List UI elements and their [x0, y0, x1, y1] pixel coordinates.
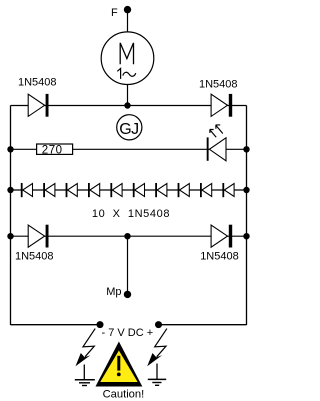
diode D4 (bottom-right) [211, 225, 232, 248]
wire: resistor/LED row [11, 148, 247, 150]
LED D5 [207, 125, 226, 161]
node: center row4 [124, 233, 130, 239]
LED arrow 1 [210, 130, 217, 138]
chain diode 5 (1N5408) [110, 183, 122, 197]
wire: top terminal stem F to motor [127, 10, 129, 32]
motor M glyph [120, 43, 133, 64]
svg-text:1N5408: 1N5408 [200, 250, 239, 262]
chain diode 2 (1N5408) [43, 183, 55, 197]
caution warning triangle [96, 342, 143, 387]
lightning bolt left [76, 329, 96, 367]
node: left bus row3 [7, 187, 13, 193]
wire: motor bottom to top bus [127, 85, 129, 106]
wire: Mp stem [127, 236, 129, 291]
ground right [148, 364, 166, 386]
wire: left bus [10, 106, 12, 326]
chain diode 10 (1N5408) [222, 183, 234, 197]
chain diode 4 (1N5408) [88, 183, 100, 197]
node: right bus row3 [243, 187, 249, 193]
svg-text:1N5408: 1N5408 [15, 250, 54, 262]
label GJ circle [117, 115, 142, 140]
node: left bus row4 [7, 233, 13, 239]
svg-text:- 7 V DC +: - 7 V DC + [102, 327, 154, 339]
terminal F dot [124, 6, 131, 13]
svg-text:GJ: GJ [119, 121, 138, 138]
diode D2 (top-right) [211, 94, 232, 117]
diode D1 (top-left) [28, 94, 48, 117]
svg-text:Caution!: Caution! [103, 388, 145, 400]
svg-text:10 X 1N5408: 10 X 1N5408 [92, 208, 170, 220]
node: right bus row4 [243, 233, 249, 239]
wire: bottom bus right segment [159, 324, 247, 326]
wire: right bus [246, 106, 248, 326]
node: left bus row2 [7, 146, 13, 152]
terminal Mp dot [124, 291, 131, 298]
node: right bus row2 [243, 146, 249, 152]
chain diode 3 (1N5408) [66, 183, 78, 197]
LED arrow 2 [216, 125, 223, 134]
lightning bolt right [147, 329, 167, 367]
wire: bottom bus left segment [11, 324, 101, 326]
wire: top row [11, 105, 247, 107]
chain diode 9 (1N5408) [200, 183, 212, 197]
chain diode 1 (1N5408) [21, 183, 33, 197]
svg-text:1N5408: 1N5408 [199, 78, 238, 90]
resistor R1 box [37, 144, 73, 154]
ground left [75, 365, 95, 386]
svg-text:1N5408: 1N5408 [18, 76, 57, 88]
node: top bus / motor junction [124, 102, 130, 108]
wire: bottom diode row [11, 235, 247, 237]
svg-text:F: F [111, 7, 118, 19]
chain diode 7 (1N5408) [155, 183, 167, 197]
wire: diode chain row [11, 189, 247, 191]
diode D3 (bottom-left) [28, 225, 48, 248]
motor 1~ glyph [117, 68, 120, 79]
node: bottom bus right [155, 321, 162, 328]
chain diode 8 (1N5408) [178, 183, 190, 197]
chain diode 6 (1N5408) [133, 183, 145, 197]
node: bottom bus left [97, 321, 104, 328]
svg-text:270: 270 [42, 144, 63, 156]
motor U1 circle [101, 32, 154, 85]
svg-text:Mp: Mp [106, 286, 121, 298]
